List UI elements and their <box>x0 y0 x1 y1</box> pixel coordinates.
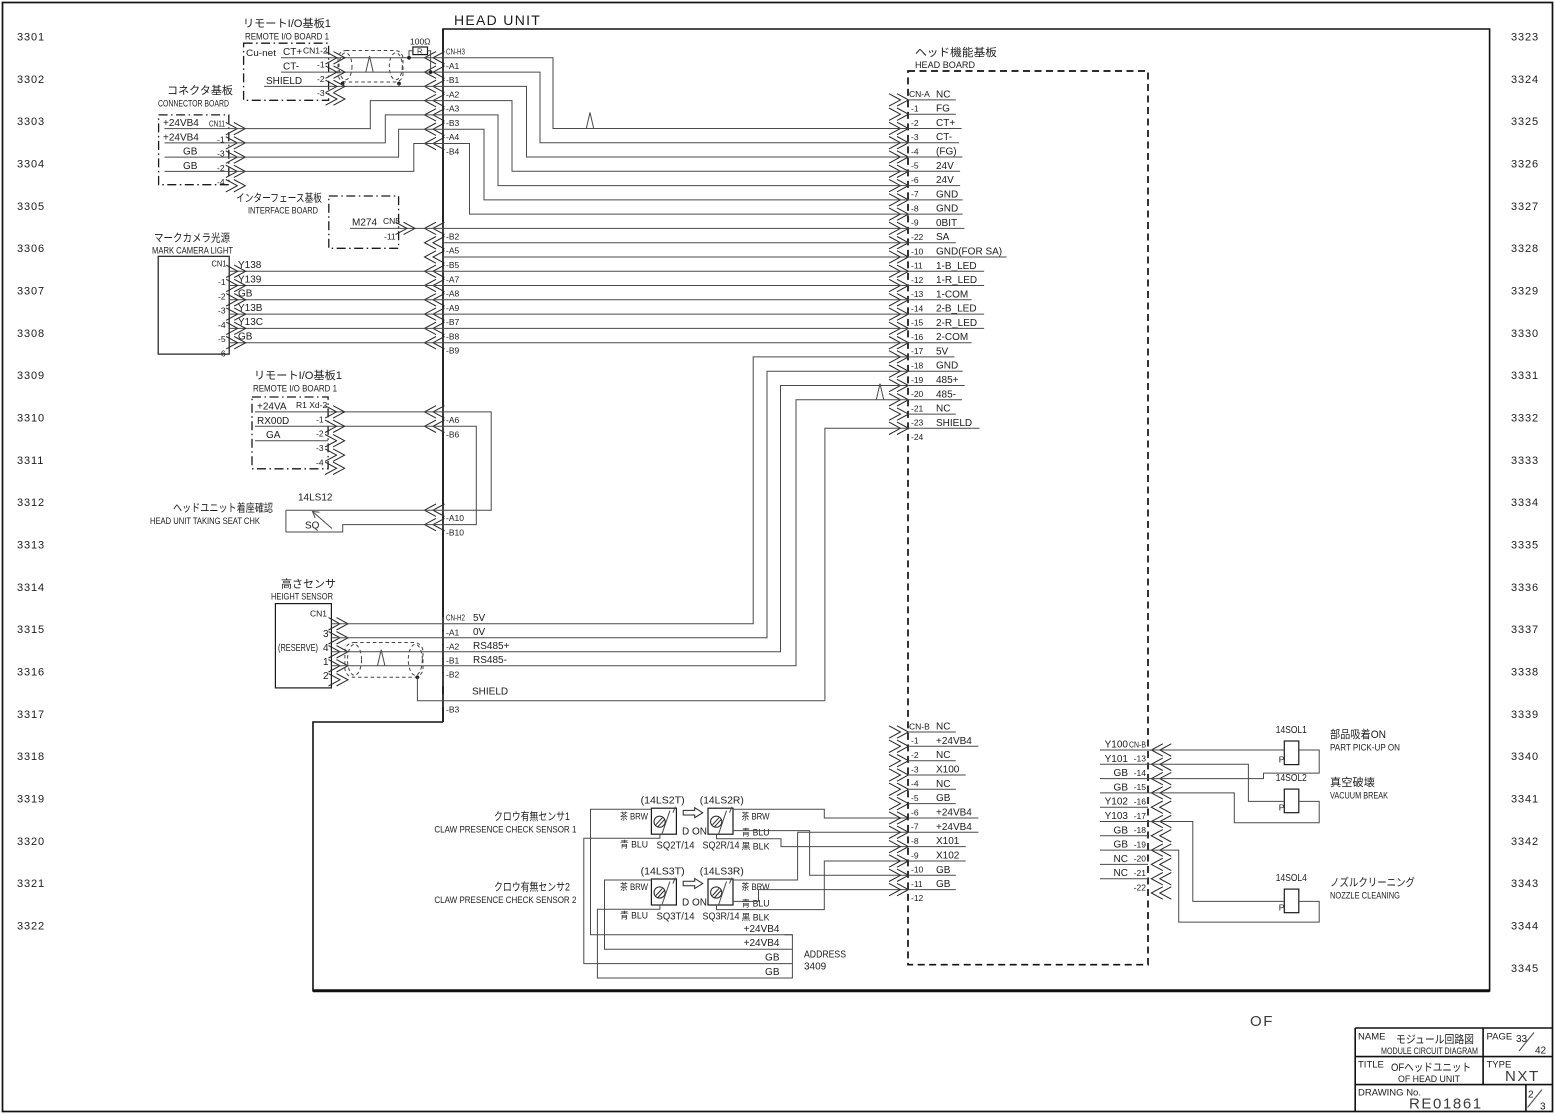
svg-text:3313: 3313 <box>17 539 45 551</box>
svg-text:SQ3R/14: SQ3R/14 <box>703 912 740 923</box>
svg-text:-6: -6 <box>911 175 919 185</box>
CN-H3 pin -A9 <box>425 294 437 306</box>
svg-text:-1: -1 <box>317 60 325 70</box>
svg-text:3339: 3339 <box>1511 709 1539 721</box>
CN-H3 pin -B10 <box>425 518 437 530</box>
CN-A pin -6 24V <box>889 179 901 191</box>
svg-text:-8: -8 <box>911 836 919 846</box>
svg-text:5V: 5V <box>936 346 949 357</box>
svg-text:-2: -2 <box>316 429 324 439</box>
svg-text:3328: 3328 <box>1511 243 1539 255</box>
svg-text:-11: -11 <box>911 261 923 271</box>
height sensor CN1 pin row n/a <box>329 674 341 686</box>
svg-text:3: 3 <box>1540 1102 1546 1113</box>
svg-text:リモートI/O基板1: リモートI/O基板1 <box>254 368 342 382</box>
svg-text:-4: -4 <box>218 320 226 330</box>
svg-text:-5: -5 <box>911 161 919 171</box>
CN-A pin -17 5V <box>889 351 901 363</box>
svg-text:-10: -10 <box>911 865 924 875</box>
height sensor CN1 pin row 2 <box>329 660 341 672</box>
wire GB -3 to bus B3 <box>229 129 443 157</box>
svg-text:-4: -4 <box>217 177 225 187</box>
svg-text:SQ2T/14: SQ2T/14 <box>657 841 695 852</box>
remote I/O board 1 dash-dot box <box>244 43 329 100</box>
CN-B pin -21 NC <box>1151 873 1163 885</box>
svg-text:3322: 3322 <box>17 920 45 932</box>
svg-text:-B3: -B3 <box>446 118 460 128</box>
CN-A pin -2 CT+ <box>889 122 901 134</box>
svg-text:3306: 3306 <box>17 243 45 255</box>
svg-text:-A7: -A7 <box>446 274 460 284</box>
wire bus A6 loop to switch top and bus A10 <box>286 412 491 510</box>
svg-text:GND: GND <box>936 189 958 200</box>
CN-B pin -16 Y102 <box>1151 801 1163 813</box>
svg-text:3345: 3345 <box>1511 963 1539 975</box>
svg-text:-12: -12 <box>911 275 924 285</box>
svg-text:GB: GB <box>936 865 951 876</box>
svg-text:青 BLU: 青 BLU <box>742 898 770 909</box>
svg-text:3307: 3307 <box>17 285 45 297</box>
svg-text:-20: -20 <box>1134 854 1147 864</box>
CN-B pin -11 GB <box>889 883 901 895</box>
svg-text:-20: -20 <box>911 389 924 399</box>
svg-text:3343: 3343 <box>1511 878 1539 890</box>
CN-B pin -4 NC <box>889 783 901 795</box>
svg-text:3323: 3323 <box>1511 32 1539 44</box>
svg-text:-1: -1 <box>911 736 919 746</box>
svg-text:+24VB4: +24VB4 <box>163 132 199 143</box>
svg-text:(14LS3T): (14LS3T) <box>641 867 685 878</box>
svg-text:3409: 3409 <box>804 962 827 973</box>
wire S1R BLK signal X101 to CN-B -8 <box>717 834 909 846</box>
svg-text:-8: -8 <box>911 203 919 213</box>
svg-text:RS485-: RS485- <box>473 655 507 666</box>
crossover mark on RS485- wire <box>378 650 385 666</box>
wire Y103 to 14SOL4 <box>1148 822 1284 902</box>
svg-text:P: P <box>1279 755 1285 765</box>
CN-B pin -8 X101 <box>889 840 901 852</box>
wire bus to CN-A GND <box>443 129 908 200</box>
svg-text:CLAW PRESENCE CHECK SENSOR 1: CLAW PRESENCE CHECK SENSOR 1 <box>434 825 576 836</box>
svg-text:REMOTE I/O BOARD 1: REMOTE I/O BOARD 1 <box>245 32 329 43</box>
svg-text:NC: NC <box>936 404 950 415</box>
svg-text:3303: 3303 <box>17 116 45 128</box>
remote I/O board (lower) dash-dot box <box>252 397 328 469</box>
shield drain junction dots <box>341 82 345 86</box>
svg-text:14LS12: 14LS12 <box>298 493 333 504</box>
svg-text:3320: 3320 <box>17 836 45 848</box>
CN-A pin -15 2-R_LED <box>889 322 901 334</box>
svg-text:RX00D: RX00D <box>257 416 289 427</box>
svg-text:GB: GB <box>183 147 198 158</box>
svg-text:2: 2 <box>323 671 329 682</box>
CN-H3 pin -B2 <box>425 222 437 234</box>
svg-text:Y103: Y103 <box>1105 811 1129 822</box>
svg-text:P: P <box>1279 903 1285 913</box>
svg-text:3302: 3302 <box>17 74 45 86</box>
svg-text:3341: 3341 <box>1511 793 1539 805</box>
svg-text:-1: -1 <box>218 277 226 287</box>
CN-A pin -7 GND <box>889 194 901 206</box>
svg-text:SQ2R/14: SQ2R/14 <box>703 841 740 852</box>
svg-text:クロウ有無センサ2: クロウ有無センサ2 <box>494 880 570 894</box>
svg-text:24V: 24V <box>936 175 954 186</box>
svg-text:R1 Xd-2: R1 Xd-2 <box>296 400 327 410</box>
CN-A pin -20 485- <box>889 394 901 406</box>
svg-text:Y100: Y100 <box>1105 740 1129 751</box>
wire bus to CN-A GND <box>443 144 908 215</box>
wire S1R BRW to CN-B +24VB4 -6 <box>733 809 908 818</box>
svg-text:CN-B: CN-B <box>909 721 930 731</box>
CN-B pin -18 GB <box>1151 830 1163 842</box>
svg-text:3330: 3330 <box>1511 328 1539 340</box>
svg-text:GB: GB <box>183 161 198 172</box>
svg-text:-7: -7 <box>911 822 919 832</box>
svg-text:X102: X102 <box>936 851 960 862</box>
svg-text:3331: 3331 <box>1511 370 1539 382</box>
svg-text:3315: 3315 <box>17 624 45 636</box>
wire bus to CN-A 24V <box>443 101 908 172</box>
svg-text:-3: -3 <box>911 764 919 774</box>
CN-B pin -17 Y103 <box>1151 815 1163 827</box>
svg-text:3305: 3305 <box>17 201 45 213</box>
svg-text:+24VB4: +24VB4 <box>163 118 199 129</box>
svg-text:部品吸着ON: 部品吸着ON <box>1330 727 1386 741</box>
connector board pin -4 arrow <box>226 180 238 192</box>
svg-text:-B1: -B1 <box>446 655 460 665</box>
svg-text:3311: 3311 <box>17 455 44 467</box>
svg-text:青 BLU: 青 BLU <box>620 910 648 921</box>
svg-text:CN5: CN5 <box>383 216 400 226</box>
svg-text:(14LS2R): (14LS2R) <box>700 796 744 807</box>
svg-text:CN11: CN11 <box>209 118 225 128</box>
title block frame <box>1355 1028 1553 1112</box>
svg-text:-13: -13 <box>911 289 924 299</box>
svg-text:ヘッドユニット着座確認: ヘッドユニット着座確認 <box>173 501 273 515</box>
svg-text:R: R <box>417 47 423 56</box>
svg-text:3326: 3326 <box>1511 158 1539 170</box>
svg-text:茶 BRW: 茶 BRW <box>620 881 648 892</box>
svg-text:-B6: -B6 <box>446 429 460 439</box>
wire riser 485- CN-H2 to CN-A <box>443 400 908 666</box>
CN-H3 pin -A6 <box>425 406 437 418</box>
twisted pair envelope (height sensor cable) <box>345 643 423 678</box>
svg-text:-16: -16 <box>911 332 924 342</box>
svg-text:-B3: -B3 <box>446 704 460 714</box>
svg-text:CONNECTOR BOARD: CONNECTOR BOARD <box>158 99 229 110</box>
svg-text:OF HEAD UNIT: OF HEAD UNIT <box>1398 1074 1460 1085</box>
svg-text:-A8: -A8 <box>446 289 460 299</box>
CN-B pin -3 X100 <box>889 769 901 781</box>
wire 14SOL4 return to GB -19 <box>1148 850 1319 922</box>
wire bus B5 to CN-A GND(FOR SA) <box>443 256 908 258</box>
svg-text:NAME: NAME <box>1358 1032 1385 1043</box>
svg-text:+24VB4: +24VB4 <box>936 822 972 833</box>
svg-text:3304: 3304 <box>17 158 45 170</box>
svg-text:3340: 3340 <box>1511 751 1539 763</box>
CN-H3 pin row y=72.1 <box>425 66 437 78</box>
svg-text:CN1: CN1 <box>212 258 227 268</box>
svg-text:SHIELD: SHIELD <box>472 687 508 698</box>
remote pin CN1-2 arrow <box>326 52 338 64</box>
CN-H3 pin row y=129.2 <box>425 123 437 135</box>
svg-text:茶 BRW: 茶 BRW <box>620 810 648 821</box>
junction dot resistor/CT+ <box>407 56 411 60</box>
svg-text:CT+: CT+ <box>936 118 955 129</box>
svg-text:-23: -23 <box>911 418 924 428</box>
svg-text:1-COM: 1-COM <box>936 289 968 300</box>
height sensor CN1 pin row 3 <box>329 618 341 630</box>
svg-text:3316: 3316 <box>17 666 45 678</box>
CN-H3 pin -B9 <box>425 337 437 349</box>
svg-text:-15: -15 <box>911 318 924 328</box>
svg-text:-3: -3 <box>316 443 324 453</box>
svg-text:CN-H2: CN-H2 <box>446 612 465 622</box>
wire GB -2 to bus A4 <box>229 144 443 172</box>
CN-B pin -9 X102 <box>889 855 901 867</box>
CN-A pin -22 SA <box>889 237 901 249</box>
svg-text:-21: -21 <box>911 403 924 413</box>
remote pin -2 arrow <box>326 80 338 92</box>
svg-text:-3: -3 <box>317 88 325 98</box>
CN-B pin -2 NC <box>889 755 901 767</box>
CN-A pin -16 2-COM <box>889 337 901 349</box>
svg-text:MARK CAMERA LIGHT: MARK CAMERA LIGHT <box>152 246 233 257</box>
svg-text:X100: X100 <box>936 765 960 776</box>
svg-text:RS485+: RS485+ <box>473 641 510 652</box>
svg-text:3: 3 <box>323 629 329 640</box>
svg-text:GB: GB <box>1114 768 1129 779</box>
svg-text:3327: 3327 <box>1511 201 1539 213</box>
wire bus to CN-A CT+ <box>443 58 908 129</box>
svg-text:GND: GND <box>936 204 958 215</box>
svg-text:青 BLU: 青 BLU <box>742 827 770 838</box>
wire S1R BLU to CN-B GB -10 <box>733 831 908 876</box>
transmit-receive arrow <box>683 879 703 889</box>
wire S1T BLU to GB <box>584 834 793 963</box>
svg-text:-22: -22 <box>911 232 924 242</box>
wire bus to CN-A (FG) <box>443 86 908 157</box>
svg-text:3318: 3318 <box>17 751 45 763</box>
wire riser 5V CN-H2 to CN-A <box>443 357 908 624</box>
svg-text:-12: -12 <box>911 893 924 903</box>
svg-text:ADDRESS: ADDRESS <box>804 950 846 961</box>
CN-B pin -14 GB <box>1151 772 1163 784</box>
svg-text:SQ: SQ <box>305 521 320 532</box>
svg-text:+24VB4: +24VB4 <box>744 938 780 949</box>
wire Y100 to 14SOL1 <box>1148 749 1284 751</box>
svg-text:CN1: CN1 <box>310 609 327 619</box>
svg-text:100Ω: 100Ω <box>410 37 431 47</box>
svg-text:-21: -21 <box>1134 868 1147 878</box>
svg-text:-2: -2 <box>911 118 919 128</box>
svg-text:-2: -2 <box>218 291 226 301</box>
svg-text:-24: -24 <box>911 432 924 442</box>
remote pin -1 arrow <box>326 66 338 78</box>
svg-text:NC: NC <box>936 750 950 761</box>
svg-text:3333: 3333 <box>1511 455 1539 467</box>
svg-text:青 BLU: 青 BLU <box>620 839 648 850</box>
svg-text:-10: -10 <box>911 246 924 256</box>
svg-text:1-B_LED: 1-B_LED <box>936 261 977 272</box>
CN-B pin -13 Y101 <box>1151 758 1163 770</box>
svg-text:OFヘッドユニット: OFヘッドユニット <box>1391 1062 1471 1074</box>
CN-A pin -8 GND <box>889 208 901 220</box>
svg-text:-11: -11 <box>384 232 396 242</box>
svg-text:42: 42 <box>1535 1046 1547 1057</box>
svg-text:-A10: -A10 <box>446 513 464 523</box>
svg-text:-A6: -A6 <box>446 415 460 425</box>
svg-text:-7: -7 <box>911 189 919 199</box>
svg-text:コネクタ基板: コネクタ基板 <box>167 83 233 97</box>
wire S2T BRW from +24VB4 supply <box>605 880 793 949</box>
CN-A pin -18 GND <box>889 365 901 377</box>
svg-text:Y102: Y102 <box>1105 797 1129 808</box>
svg-text:D ON: D ON <box>682 898 707 909</box>
svg-text:HEIGHT SENSOR: HEIGHT SENSOR <box>271 592 333 603</box>
svg-text:-4: -4 <box>316 458 324 468</box>
svg-text:MODULE CIRCUIT DIAGRAM: MODULE CIRCUIT DIAGRAM <box>1381 1046 1478 1057</box>
CN-B pin -19 GB <box>1151 844 1163 856</box>
svg-text:GB: GB <box>1114 825 1129 836</box>
svg-text:-B4: -B4 <box>446 147 460 157</box>
svg-text:-1: -1 <box>911 104 919 114</box>
CN-A pin -19 485+ <box>889 379 901 391</box>
CN-A pin -11 1-B_LED <box>889 265 901 277</box>
svg-text:リモートI/O基板1: リモートI/O基板1 <box>243 16 331 30</box>
CN-B pin -7 +24VB4 <box>889 826 901 838</box>
svg-text:3336: 3336 <box>1511 582 1539 594</box>
CN-A pin -5 24V <box>889 165 901 177</box>
svg-text:3309: 3309 <box>17 370 45 382</box>
svg-text:CT-: CT- <box>283 62 299 73</box>
svg-text:+24VA: +24VA <box>257 401 287 412</box>
svg-text:2-B_LED: 2-B_LED <box>936 304 977 315</box>
svg-text:-14: -14 <box>911 303 924 313</box>
svg-text:NC: NC <box>1114 854 1128 865</box>
mark camera light box <box>158 256 229 354</box>
CN-A pin -23 SHIELD <box>889 422 901 434</box>
svg-text:-6: -6 <box>911 807 919 817</box>
svg-text:14SOL2: 14SOL2 <box>1276 773 1307 784</box>
svg-text:-2: -2 <box>317 74 325 84</box>
svg-text:0V: 0V <box>473 627 486 638</box>
CN-A pin -4 (FG) <box>889 151 901 163</box>
CN-H3 pin -B5 <box>425 251 437 263</box>
svg-text:茶 BRW: 茶 BRW <box>742 881 770 892</box>
CN-H3 pin row y=100.6 <box>425 94 437 106</box>
svg-text:-15: -15 <box>1134 782 1147 792</box>
wire bus to CN-A CT- <box>443 72 908 143</box>
svg-text:REMOTE I/O BOARD 1: REMOTE I/O BOARD 1 <box>253 384 337 395</box>
svg-text:2: 2 <box>1528 1090 1534 1101</box>
CN-B pin -10 GB <box>889 869 901 881</box>
height sensor CN1 pin row 1 <box>329 646 341 658</box>
svg-text:マークカメラ光源: マークカメラ光源 <box>154 231 230 245</box>
CN-H3/CN-H2 bus line (head unit left edge) <box>442 29 444 722</box>
svg-text:-A2: -A2 <box>446 641 460 651</box>
CN-B pin -5 GB <box>889 797 901 809</box>
svg-text:-17: -17 <box>911 346 924 356</box>
junction dot resistor/CT- <box>429 70 433 74</box>
svg-text:3310: 3310 <box>17 412 45 424</box>
CN-H3 pin row y=86.4 <box>425 80 437 92</box>
svg-text:VACUUM BREAK: VACUUM BREAK <box>1330 791 1389 802</box>
svg-text:3308: 3308 <box>17 328 45 340</box>
svg-text:真空破壊: 真空破壊 <box>1330 775 1375 789</box>
svg-text:(FG): (FG) <box>936 147 957 158</box>
interface board dash-dot box <box>329 196 399 248</box>
svg-text:PART PICK-UP ON: PART PICK-UP ON <box>1330 743 1400 754</box>
svg-text:GB: GB <box>936 879 951 890</box>
shield drain junction dot <box>416 675 420 679</box>
wire S2T BLU to GB <box>597 905 792 978</box>
wire bus A5 to CN-A SA <box>443 242 908 244</box>
svg-text:-A1: -A1 <box>446 627 460 637</box>
svg-text:CLAW PRESENCE CHECK SENSOR 2: CLAW PRESENCE CHECK SENSOR 2 <box>434 895 576 906</box>
svg-text:-6: -6 <box>218 349 226 359</box>
wire riser 485+ CN-H2 to CN-A <box>443 386 908 652</box>
wire +24VB4 -1 to bus A3 <box>229 115 443 143</box>
svg-text:NC: NC <box>936 779 950 790</box>
CN-H3 pin row y=57.8 <box>425 52 437 64</box>
svg-text:-9: -9 <box>911 218 919 228</box>
svg-text:0BIT: 0BIT <box>936 218 957 229</box>
svg-text:-A9: -A9 <box>446 303 460 313</box>
svg-text:GB: GB <box>238 332 253 343</box>
svg-text:-18: -18 <box>911 361 924 371</box>
svg-text:GND(FOR SA): GND(FOR SA) <box>936 247 1002 258</box>
svg-text:3338: 3338 <box>1511 666 1539 678</box>
svg-text:-B2: -B2 <box>446 231 460 241</box>
svg-text:3337: 3337 <box>1511 624 1539 636</box>
CN-H3 pin row y=114.9 <box>425 109 437 121</box>
HEAD UNIT boundary box <box>313 29 1490 991</box>
svg-text:-19: -19 <box>1134 839 1147 849</box>
wire S2R BRW to CN-B +24VB4 -7 <box>733 832 908 880</box>
svg-text:GA: GA <box>266 430 281 441</box>
svg-text:-A5: -A5 <box>446 246 460 256</box>
CN-A pin -3 CT- <box>889 137 901 149</box>
svg-text:(14LS2T): (14LS2T) <box>641 796 685 807</box>
svg-text:P: P <box>1279 803 1285 813</box>
CN-A pin -1 FG <box>889 108 901 120</box>
svg-text:14SOL4: 14SOL4 <box>1276 873 1307 884</box>
svg-text:-A1: -A1 <box>446 61 460 71</box>
svg-text:5V: 5V <box>473 613 486 624</box>
twisted pair envelope (Cu-net cable) <box>338 51 403 83</box>
svg-text:(RESERVE): (RESERVE) <box>278 643 318 654</box>
svg-text:茶 BRW: 茶 BRW <box>742 810 770 821</box>
svg-text:-14: -14 <box>1134 768 1147 778</box>
svg-text:SHIELD: SHIELD <box>936 418 972 429</box>
svg-text:GB: GB <box>765 967 780 978</box>
svg-text:X101: X101 <box>936 836 960 847</box>
svg-text:3317: 3317 <box>17 709 45 721</box>
svg-text:3332: 3332 <box>1511 412 1539 424</box>
svg-text:+24VB4: +24VB4 <box>744 924 780 935</box>
svg-text:-9: -9 <box>911 850 919 860</box>
wire 14SOL2 return to GB -15 <box>1148 793 1319 823</box>
svg-text:SQ3T/14: SQ3T/14 <box>657 912 695 923</box>
svg-text:-B7: -B7 <box>446 317 460 327</box>
interface pin CN5-11 arrow <box>396 222 408 234</box>
wire bus to CN-A 24V <box>443 115 908 186</box>
svg-text:3312: 3312 <box>17 497 45 509</box>
svg-text:HEAD UNIT: HEAD UNIT <box>454 12 541 28</box>
svg-text:モジュール回路図: モジュール回路図 <box>1396 1033 1474 1046</box>
switch 14LS12 left leg <box>285 510 287 532</box>
